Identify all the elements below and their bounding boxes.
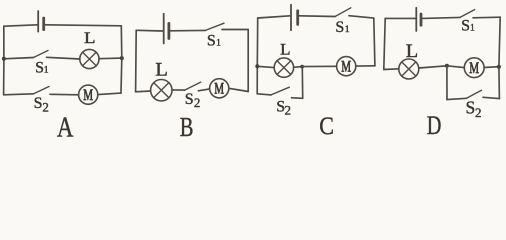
wire S1 to lamp A xyxy=(47,57,80,59)
motor M letter D xyxy=(469,59,479,77)
label D xyxy=(427,112,442,141)
battery B long plate xyxy=(163,14,165,44)
svg-text:1: 1 xyxy=(345,25,350,35)
motor M letter C xyxy=(341,57,351,75)
wire battery to S1 C xyxy=(299,15,335,18)
wire left A xyxy=(3,26,5,95)
svg-text:S: S xyxy=(461,18,470,35)
motor M letter B xyxy=(214,79,224,97)
wire motor to corner B xyxy=(229,88,248,91)
wire right D xyxy=(499,17,500,98)
wire S2 to motor B xyxy=(198,89,209,91)
node D junction left xyxy=(445,64,449,68)
node C junction right xyxy=(300,65,304,69)
battery C short plate xyxy=(296,11,299,25)
svg-text:M: M xyxy=(469,59,479,77)
wire junction to motor D xyxy=(447,66,464,68)
wire top-right A xyxy=(45,25,122,26)
circuit B xyxy=(136,14,249,143)
wire S1 to corner C xyxy=(349,16,374,18)
battery C long plate xyxy=(290,5,292,31)
wire S2 bottom-left D xyxy=(447,98,467,99)
wire S1 to corner B xyxy=(222,29,248,31)
switch S2 blade C xyxy=(271,87,289,95)
svg-text:M: M xyxy=(341,57,351,75)
switch S2 blade D xyxy=(467,90,482,98)
lamp L cross A xyxy=(83,52,97,66)
svg-text:A: A xyxy=(57,111,74,138)
wire right B xyxy=(247,30,249,92)
label L of lamp B xyxy=(155,59,168,80)
svg-text:S: S xyxy=(207,32,216,49)
wire lamp to junction C xyxy=(294,66,303,69)
lamp L circle D xyxy=(399,59,419,79)
motor M circle C xyxy=(337,57,356,76)
motor M circle D xyxy=(464,58,484,78)
wire left to lamp D xyxy=(384,68,399,71)
node A-left junction xyxy=(2,57,6,61)
svg-text:M: M xyxy=(83,86,93,104)
wire top-left C xyxy=(258,16,291,18)
wire battery to S1 D xyxy=(423,17,460,18)
svg-text:2: 2 xyxy=(285,102,292,117)
svg-text:L: L xyxy=(155,59,168,80)
wire S2 to corner D xyxy=(483,97,499,98)
switch S1 blade A xyxy=(34,51,49,58)
lamp L cross D xyxy=(402,62,416,76)
wire motor to right A xyxy=(98,93,121,95)
wire top-left B xyxy=(136,29,163,32)
battery A short plate xyxy=(42,18,45,30)
node D junction right xyxy=(497,65,501,69)
motor M letter A xyxy=(83,86,93,104)
wire S2 to motor A xyxy=(50,93,79,96)
wire bottom-left A xyxy=(4,94,34,95)
switch S1 blade D xyxy=(460,10,475,18)
wire junction to motor C xyxy=(302,65,337,67)
svg-text:2: 2 xyxy=(42,99,49,114)
battery D long plate xyxy=(415,8,417,31)
label L of lamp A xyxy=(84,28,96,46)
svg-text:L: L xyxy=(84,28,96,46)
svg-text:S: S xyxy=(335,19,344,36)
wire top-left A xyxy=(4,25,38,26)
wire S2 dropper D xyxy=(446,66,448,100)
battery A long plate xyxy=(37,11,39,32)
node A-right junction xyxy=(120,56,124,60)
label A xyxy=(57,111,74,143)
svg-text:B: B xyxy=(180,112,194,138)
wire bottom-left B xyxy=(136,90,151,93)
switch S2 blade A xyxy=(34,87,49,94)
svg-text:L: L xyxy=(406,42,418,62)
lamp L cross B xyxy=(154,83,169,98)
svg-text:D: D xyxy=(427,112,442,138)
switch S1 blade B xyxy=(206,23,225,30)
wire motor to junction D xyxy=(484,66,499,69)
wire left B xyxy=(135,30,138,92)
circuit C xyxy=(255,5,375,141)
wire junction to lamp C xyxy=(257,66,274,67)
label B xyxy=(180,112,194,143)
svg-text:L: L xyxy=(280,40,290,58)
svg-text:S: S xyxy=(35,59,44,76)
svg-text:S: S xyxy=(185,91,194,108)
motor M circle B xyxy=(210,79,229,98)
wire left C xyxy=(256,18,259,94)
motor M circle A xyxy=(79,85,98,104)
svg-text:S: S xyxy=(466,98,476,118)
svg-text:M: M xyxy=(214,79,224,97)
wire middle-branch left A xyxy=(4,58,34,59)
wire battery to S1 B xyxy=(170,29,206,31)
wire S2 riser C xyxy=(301,67,303,99)
svg-text:S: S xyxy=(34,95,43,112)
wire lamp to right A xyxy=(99,57,122,60)
wire top-left D xyxy=(385,17,415,19)
lamp L circle A xyxy=(80,49,99,68)
label L of lamp C xyxy=(280,40,290,58)
wire motor to corner C xyxy=(356,65,375,67)
lamp L circle C xyxy=(274,58,293,77)
wire S2 to corner C xyxy=(292,97,303,100)
svg-text:1: 1 xyxy=(216,38,221,48)
lamp L cross C xyxy=(277,61,291,75)
wire right C xyxy=(374,18,375,66)
label C xyxy=(319,113,334,141)
wire lamp to junction D xyxy=(419,66,447,68)
wire left D xyxy=(384,18,385,69)
circuit D xyxy=(384,8,501,141)
node C junction left xyxy=(255,64,259,68)
svg-text:C: C xyxy=(319,113,334,138)
lamp L circle B xyxy=(151,80,172,101)
wire S2 bottom-left C xyxy=(257,94,271,95)
wire right A xyxy=(120,26,123,93)
switch S2 blade B xyxy=(185,82,201,90)
svg-text:2: 2 xyxy=(194,95,201,110)
svg-text:1: 1 xyxy=(44,65,49,75)
circuit A xyxy=(2,11,124,143)
svg-text:2: 2 xyxy=(475,105,482,120)
battery D short plate xyxy=(420,14,423,25)
label L of lamp D xyxy=(406,42,418,62)
switch S1 blade C xyxy=(335,8,351,17)
battery B short plate xyxy=(167,23,170,38)
wire lamp to S2 B xyxy=(172,89,185,91)
svg-text:1: 1 xyxy=(470,24,475,34)
wire S1 to corner D xyxy=(473,16,500,19)
